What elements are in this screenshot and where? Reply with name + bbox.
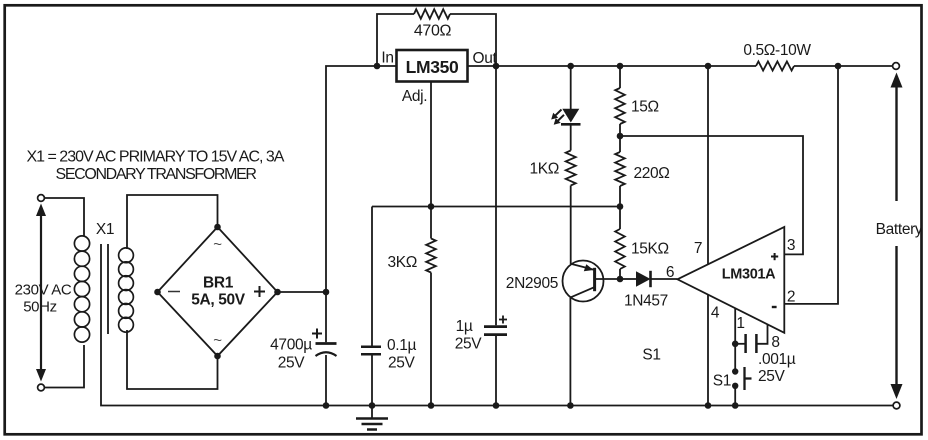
label BR1 value <box>191 275 246 309</box>
label C3 1u 25V <box>455 318 483 353</box>
svg-text:230V AC: 230V AC <box>15 282 72 299</box>
label 15K <box>631 241 669 258</box>
svg-text:1N457: 1N457 <box>624 293 668 310</box>
capacitor C3 1u <box>484 316 507 335</box>
wire 3K to rail <box>430 273 432 406</box>
arrow battery minus <box>891 246 903 399</box>
svg-text:25V: 25V <box>278 355 306 372</box>
node pin7 column top <box>705 63 712 70</box>
note transformer spec text <box>27 149 285 184</box>
wire pin1 <box>734 308 736 371</box>
svg-text:4: 4 <box>711 305 720 322</box>
wire pin7 <box>707 66 709 265</box>
node rail pin4 <box>705 402 712 409</box>
arrow 230V AC span <box>36 204 46 382</box>
node 15R column top <box>617 63 624 70</box>
svg-text:1KΩ: 1KΩ <box>530 161 560 178</box>
wire top rail <box>496 65 893 67</box>
label S1 switch <box>713 373 731 390</box>
label pin 2 <box>787 289 795 306</box>
svg-text:5A, 50V: 5A, 50V <box>191 292 246 309</box>
ground <box>356 406 388 430</box>
label 15R <box>631 99 659 116</box>
bridge tilde bottom <box>213 332 222 349</box>
regulator U1 LM350 box <box>397 50 468 82</box>
svg-text:1: 1 <box>736 315 744 332</box>
svg-text:.001µ: .001µ <box>758 351 796 368</box>
terminal battery minus <box>893 402 900 409</box>
svg-text:Battery: Battery <box>876 221 923 238</box>
wire S1 to rail <box>734 386 736 406</box>
label C2 0.1u 25V <box>387 337 416 372</box>
arrow battery plus <box>891 73 903 202</box>
node Adj junction <box>428 203 435 210</box>
node bridge AC top <box>214 224 221 231</box>
node 220R 15K junction <box>617 203 624 210</box>
wire node to 15K <box>619 207 621 230</box>
svg-text:3KΩ: 3KΩ <box>388 254 418 271</box>
label 0.5R-10W <box>743 42 811 59</box>
svg-text:50Hz: 50Hz <box>23 299 57 316</box>
wire bridge plus to main node <box>281 291 327 293</box>
svg-text:15KΩ: 15KΩ <box>631 241 669 258</box>
LED D1 <box>551 109 580 125</box>
svg-text:3: 3 <box>787 237 795 254</box>
resistor R5 220R zigzag <box>615 152 625 186</box>
wire Adj <box>430 82 432 207</box>
label pin 6 <box>666 264 674 281</box>
wire LM350 out <box>468 65 497 67</box>
resistor 470R zigzag <box>414 9 450 19</box>
wire base node to diode <box>620 278 636 280</box>
transistor Q1 2N2905 <box>563 261 604 302</box>
resistor 0.5R 10W zigzag <box>756 61 794 70</box>
wire AC top to primary <box>45 198 84 236</box>
terminal AC top <box>38 195 45 202</box>
wire pin4 to rail <box>707 295 709 406</box>
wire 220R to node <box>619 186 621 207</box>
wire Adj node to 3K <box>430 207 432 239</box>
label pin 8 <box>771 334 779 351</box>
terminal AC bottom <box>38 384 45 391</box>
wire 0.1u to rail <box>371 354 373 405</box>
transformer core line right <box>107 244 109 334</box>
label 220R <box>634 165 670 182</box>
wire LED to 1K <box>570 124 572 150</box>
node rail S1 <box>732 402 739 409</box>
label 230V AC 50Hz <box>15 282 72 316</box>
node rail main <box>323 402 330 409</box>
wire secondary bottom to bridge <box>127 330 218 389</box>
resistor R4 3K zigzag <box>426 239 436 273</box>
svg-text:S1: S1 <box>713 373 731 390</box>
wire 1K to transistor emitter <box>570 186 572 265</box>
resistor R6 15K zigzag <box>615 229 625 269</box>
label Out <box>473 50 498 67</box>
label pin 7 <box>694 240 702 257</box>
wire main riser to LM350 In <box>326 66 397 292</box>
label 3K <box>388 254 418 271</box>
svg-text:2N2905: 2N2905 <box>506 275 558 292</box>
wire 1u to rail <box>495 335 497 406</box>
wire 15R to node <box>619 124 621 136</box>
label pin 1 <box>736 315 744 332</box>
wire feedback loop <box>377 14 496 66</box>
svg-text:470Ω: 470Ω <box>414 23 452 40</box>
wire adj bus <box>372 206 620 208</box>
svg-text:1µ: 1µ <box>456 318 473 335</box>
wire cap right lead to pin8 <box>756 325 767 344</box>
node main plus <box>323 289 330 296</box>
wire out column <box>495 66 497 325</box>
wire collector to rail <box>569 298 571 406</box>
node rail 3K <box>428 402 435 409</box>
switch S1 <box>732 367 752 390</box>
svg-text:7: 7 <box>694 240 702 257</box>
bridge minus sign <box>168 291 180 293</box>
node pin1 cap junction <box>732 341 739 348</box>
svg-text:15Ω: 15Ω <box>631 99 659 116</box>
label 1N457 <box>624 293 668 310</box>
node base junction <box>617 276 624 283</box>
bridge plus sign <box>254 286 265 297</box>
svg-text:LM350: LM350 <box>406 57 459 77</box>
node rail 1u <box>493 402 500 409</box>
node LED column top <box>567 63 574 70</box>
svg-text:~: ~ <box>213 236 222 253</box>
transformer X1 secondary winding <box>119 248 134 332</box>
capacitor C1 4700u <box>312 329 337 357</box>
label In <box>381 50 393 67</box>
label pin 4 <box>711 305 720 322</box>
svg-text:4700µ: 4700µ <box>270 337 312 354</box>
capacitor C4 .001u <box>746 334 757 353</box>
wire pin2 to battery sense <box>785 66 838 304</box>
node bridge minus <box>154 289 161 296</box>
node rail collector <box>567 402 574 409</box>
node Out junction <box>493 63 500 70</box>
op-amp U2 LM301A <box>677 227 784 333</box>
wire rail to 15R <box>619 66 621 88</box>
diode D2 1N457 <box>636 271 651 287</box>
wire main node to cap <box>325 292 327 342</box>
label S1 <box>642 347 660 364</box>
label 2N2905 <box>506 275 558 292</box>
svg-text:8: 8 <box>771 334 779 351</box>
svg-text:X1: X1 <box>96 221 114 238</box>
label C4 .001u 25V <box>758 351 796 385</box>
label C1 4700u 25V <box>270 337 312 372</box>
svg-text:In: In <box>381 50 393 67</box>
bridge rectifier BR1 diamond <box>158 227 278 356</box>
svg-text:25V: 25V <box>455 336 483 353</box>
wire AC bottom to primary <box>45 345 84 388</box>
label 1K <box>530 161 560 178</box>
label 470R <box>414 23 452 40</box>
node LM350 In junction <box>374 63 381 70</box>
wire sense to pin3 <box>620 136 803 254</box>
svg-text:220Ω: 220Ω <box>634 165 670 182</box>
wire junction to 220R <box>619 136 621 152</box>
svg-text:25V: 25V <box>388 355 416 372</box>
svg-text:S1: S1 <box>642 347 660 364</box>
label X1 <box>96 221 114 238</box>
svg-text:X1 = 230V AC PRIMARY TO 15V AC: X1 = 230V AC PRIMARY TO 15V AC, 3A <box>27 149 285 166</box>
svg-text:SECONDARY TRANSFORMER: SECONDARY TRANSFORMER <box>56 166 257 183</box>
svg-text:6: 6 <box>666 264 674 281</box>
bridge tilde top <box>213 236 222 253</box>
svg-text:LM301A: LM301A <box>722 267 776 283</box>
resistor R2 1K zigzag <box>566 151 576 186</box>
transformer core line left (runs to bottom rail) <box>101 244 893 406</box>
node bridge plus <box>274 289 281 296</box>
label pin 3 <box>787 237 795 254</box>
svg-text:Adj.: Adj. <box>402 88 427 105</box>
resistor R3 15R zigzag <box>615 88 625 124</box>
node 15R 220R junction <box>617 133 624 140</box>
transformer X1 primary winding <box>74 236 89 342</box>
capacitor C2 0.1u <box>361 347 381 355</box>
node battery sense top <box>835 63 842 70</box>
svg-text:0.1µ: 0.1µ <box>387 337 416 354</box>
wire diode to opamp <box>651 278 678 280</box>
node rail ground <box>369 402 376 409</box>
wire adj bus drop to 0.1u <box>371 207 373 346</box>
wire secondary top to bridge <box>127 195 218 249</box>
svg-text:BR1: BR1 <box>203 275 234 292</box>
wire rail to LED <box>570 66 572 109</box>
svg-text:0.5Ω-10W: 0.5Ω-10W <box>743 42 811 59</box>
svg-text:2: 2 <box>787 289 795 306</box>
wire cap to rail <box>325 355 327 406</box>
wire base <box>596 278 620 280</box>
svg-text:25V: 25V <box>758 368 786 385</box>
terminal battery plus <box>893 63 900 70</box>
wire 15K to base node <box>619 269 621 279</box>
wire cap left lead <box>735 343 745 345</box>
node bridge AC bottom <box>214 353 221 360</box>
label Adj <box>402 88 427 105</box>
svg-text:~: ~ <box>213 332 222 349</box>
label Battery <box>876 221 923 238</box>
